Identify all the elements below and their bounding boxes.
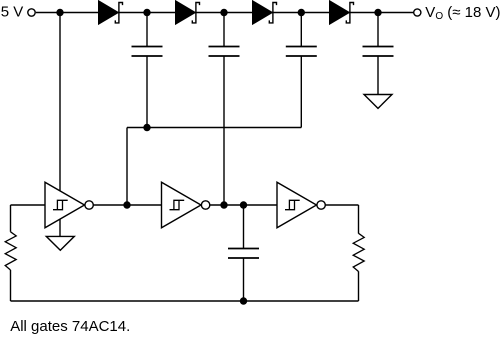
svg-text:VO (≈ 18 V): VO (≈ 18 V): [425, 4, 500, 22]
svg-text:5 V: 5 V: [1, 4, 24, 21]
svg-text:All gates 74AC14.: All gates 74AC14.: [10, 318, 130, 335]
